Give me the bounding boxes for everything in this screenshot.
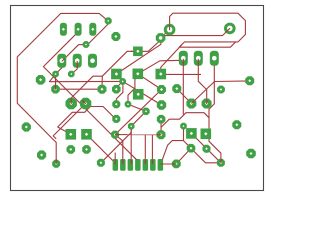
pad L2 large octagon <box>80 98 91 109</box>
pad K2-3 oval large hole <box>210 51 219 66</box>
pad small via (128,104.2) <box>125 101 132 108</box>
wire octagon (100.9,162.8) diagonal up to small via <box>101 126 131 163</box>
wire stub through K2-2 hole <box>197 59 199 66</box>
pad S4 square <box>156 69 167 80</box>
wire square S6 stepped route to octagon (116.3,118.9) <box>58 107 117 135</box>
pad octagon (206.5,148.7) <box>203 145 211 153</box>
pad octagon (161,134.7) <box>157 130 166 139</box>
pad K1-2 oval large hole <box>73 54 82 68</box>
wire stub into X1 pin2 <box>122 160 124 165</box>
wire B5 down to octagon (206.6,103.5) <box>198 59 206 104</box>
wire square S1 to octagon M2 <box>131 38 161 51</box>
pad small via (183.5,126.1) <box>180 123 187 130</box>
wire connector pin7 to octagon (176.3,163.9) <box>160 163 176 165</box>
pad K1-3 oval large hole <box>88 54 97 68</box>
pad via M6 small octagon <box>52 71 59 78</box>
pad octagon (176.8,88.6) <box>172 84 181 93</box>
wire via (131.2,126.2) diagonal to via (146,111.3) <box>131 111 146 126</box>
pad small via (146,111.3) <box>142 108 149 115</box>
wire octagon (191,148.2) to octagon (220.9,162.8) <box>191 148 221 162</box>
wire stub through L2 hole <box>82 100 86 104</box>
wire via (122.7,81.4) line to octagon (161.5,105) <box>123 81 162 105</box>
wire stub into X1 pin7 and octagon (176.3,163.9) <box>160 163 176 165</box>
wire stub into X1 pin1 <box>114 160 116 165</box>
pad S8 square <box>186 128 197 139</box>
wire via (128,104.2) line to via (146,111.3) <box>128 104 146 111</box>
pad via M7 octagon <box>51 85 60 94</box>
wire square S3 line to octagon (161.5,89.5) <box>138 74 162 90</box>
wire B6 down joining node <box>209 59 214 118</box>
wire small via to octagon pad (116,89) <box>116 81 122 89</box>
wire connector pin5 vertical to bus <box>144 135 146 161</box>
pad S1 square <box>133 47 143 57</box>
wire stub through K1-2 hole <box>76 61 78 68</box>
pad J1-3 oval <box>89 23 96 36</box>
wire small via (183.5,126.1) down to octagon (191,148.2) <box>183 126 185 141</box>
wire small via down to octagon pad (116,104) <box>116 82 123 104</box>
wire octagon (115,134.6) long diagonal to octagon (161.5,89.5) <box>115 90 162 135</box>
wire staircase corner down to octagon pad (102,89) <box>101 76 103 89</box>
pad octagon (236.8,124.8) <box>232 120 241 129</box>
wire square S4 up to loop arm <box>161 45 182 74</box>
pad K2-2 oval large hole <box>194 51 203 66</box>
wire stub through via hole (56.2,163.7) <box>55 159 57 164</box>
pad K1-1 oval large hole <box>57 54 66 68</box>
wire stub into X1 pin4 <box>135 158 137 160</box>
wire square S3 line to pad B4 <box>138 60 184 74</box>
wire stub through octagon Oct1 <box>191 100 194 103</box>
wire octagon (176.8,88.6) diagonal to octagon Oct1 <box>177 89 192 104</box>
wire via M4 down-left to via M3 <box>86 21 108 45</box>
wire stub into X1 pin6 <box>151 160 153 165</box>
wire stub through K2-1 hole <box>182 59 184 66</box>
wire square S4 horizontal stub <box>163 73 201 75</box>
wire B2 to via M6b <box>71 61 77 74</box>
wire connector pin2 up to octagon (115,134.6) <box>115 135 123 161</box>
pad S7 square <box>81 129 92 140</box>
pad X1 pin 5 <box>143 159 149 171</box>
pad octagon (161.1,119.2) <box>157 115 166 124</box>
wire B1 to via M6 <box>56 61 62 74</box>
pad small via (131.2,126.2) <box>128 123 135 130</box>
wire ring R1 to octagon M2 <box>161 30 170 38</box>
pad octagon (70.8,149.4) <box>67 145 76 154</box>
pad octagon (251,153.5) <box>246 149 256 159</box>
wire octagon M2 to ring R2 <box>161 28 230 38</box>
wire B4 vertical down to node <box>182 59 184 115</box>
pad octagon (26.3,127) <box>22 122 31 131</box>
pad octagon (116.3,89.2) <box>112 85 121 94</box>
pad R2 ring <box>224 23 236 35</box>
wire via M3 to pad B1 <box>62 45 86 62</box>
pad octagon (249.7,80.7) <box>245 76 254 85</box>
wire stub into connector pin1 <box>114 153 116 165</box>
pad octagon Oct1 (191.4,103.5) <box>186 99 196 109</box>
board outline <box>11 6 264 191</box>
pad X1 pin 4 <box>135 159 141 171</box>
pad via M3 small octagon <box>83 41 90 48</box>
wire stub through pad B1 <box>62 59 65 62</box>
wire via M7 horizontal to octagon pad (102,89) <box>56 88 103 90</box>
wire via M6 to via M7 <box>55 74 57 89</box>
wire stub through octagon (115,134.6) <box>115 134 120 136</box>
wire stub through R1 hole <box>169 25 171 31</box>
wire square S2 direct line to octagon M2 <box>116 38 160 74</box>
pad octagon (86.5,149.4) <box>82 145 91 154</box>
wire stub through R2 hole <box>226 28 230 32</box>
pad M1 octagon <box>111 32 120 41</box>
pad octagon (176.3,163.9) <box>172 160 181 169</box>
wire octagon (161,134.7) up to octagon (161,119.2) <box>160 119 162 135</box>
wire connector pin6 vertical to bus <box>151 135 153 161</box>
wire octagon Oct1 up to octagon (249.7,80.7) <box>191 81 249 104</box>
pad R1 ring <box>164 24 176 36</box>
wire net1 rail (via M4 to via at bottom-left) <box>17 13 108 163</box>
pad X1 pin 1 <box>113 159 119 171</box>
pad octagon (115,134.6) <box>111 131 119 139</box>
pad S3 square <box>133 69 144 80</box>
pad octagon (102,89.2) <box>98 85 107 94</box>
wire octagon (176.3,163.9) diagonal to octagon (191,148.2) <box>176 148 191 164</box>
wire loop around ring R2 <box>170 13 246 47</box>
wire stub through octagon Oct2 <box>206 99 208 104</box>
pad J1-1 oval <box>60 23 67 36</box>
wire small via (131.2,126.2) down to connector pin3 <box>130 126 132 161</box>
pad small via (122.7,81.4) <box>119 78 126 85</box>
pad octagon (161.5,89.5) <box>157 85 166 94</box>
wire square S3 down to via (128,104.2) <box>128 74 138 104</box>
wire stub into X1 pin5 <box>144 160 146 165</box>
pad octagon (221,89.5) <box>217 86 225 94</box>
pad octagon (100.9,162.8) <box>97 159 105 167</box>
pad S6 square <box>66 129 77 140</box>
pad octagon (191,148.2) <box>187 144 196 153</box>
pad J1-2 oval <box>75 23 82 36</box>
wire right-side polyline <box>161 113 221 163</box>
pad M5 octagon <box>36 75 46 85</box>
pad X1 pin 2 <box>120 159 126 171</box>
pad via M6b small octagon <box>68 71 75 78</box>
pad octagon Oct2 (206.6,103.5) <box>202 99 212 109</box>
wire stub into X1 pin3 <box>130 160 132 165</box>
pad X1 pin 7 <box>158 159 164 171</box>
wire via M6 to small via (122.7,81.4) <box>49 74 122 82</box>
wire square S8 diagonal through octagon (206.5,148.7) to octagon (220.9,162.8) <box>191 133 221 162</box>
pad octagon (56,163.7) <box>52 160 60 168</box>
wire stub through octagon (220.9,162.8) <box>220 159 222 163</box>
pad octagon (161.5,105) <box>157 100 166 109</box>
pad octagon (116.3,104.2) <box>112 100 120 108</box>
pad L1 large octagon <box>66 98 77 109</box>
pad M2 octagon <box>156 33 166 43</box>
wire L2 pad to rail junction <box>53 104 85 139</box>
pad S10 square <box>133 89 144 100</box>
wire stub through octagon (161,134.7) <box>157 134 162 136</box>
pad X1 pin 6 <box>150 159 156 171</box>
pad S2 square <box>111 69 122 80</box>
wire stub through M7 hole <box>55 85 57 90</box>
wire square S7 diagonal to connector pin1 <box>87 134 114 161</box>
pad octagon (41.6,155) <box>37 150 46 159</box>
wire bus horizontal (115,134.6)-(161,134.7) <box>115 134 161 136</box>
wire stub through L1 hole <box>70 98 72 104</box>
wire pad O2 long diagonal to connector pin 4 <box>43 29 136 161</box>
pad via M4 small octagon <box>105 17 112 24</box>
pad octagon (220.9,162.8) <box>217 159 225 167</box>
pad X1 pin 3 <box>128 159 134 171</box>
wire square S1 staircase route to pad L1 <box>71 51 138 103</box>
pad K2-1 oval large hole <box>179 51 188 66</box>
wire octagon (191,148.2) to connector pin7 <box>163 141 191 160</box>
pad S9 square <box>201 129 212 140</box>
pad octagon (116.3,118.9) <box>112 115 120 123</box>
